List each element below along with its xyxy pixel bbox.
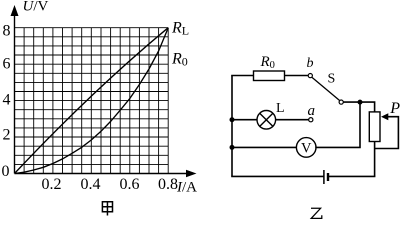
- svg-text:8: 8: [3, 23, 11, 40]
- wire rheostat bottom down: [374, 142, 376, 177]
- wire junction to rheostat top: [360, 102, 375, 112]
- svg-text:b: b: [307, 56, 314, 71]
- svg-text:V: V: [301, 141, 312, 157]
- svg-text:S: S: [328, 72, 336, 87]
- lamp L: [257, 111, 276, 130]
- y-axis arrow: [11, 5, 19, 16]
- svg-text:6: 6: [3, 56, 11, 73]
- terminal b: [308, 74, 312, 78]
- battery short plate: [327, 173, 329, 181]
- svg-text:0.2: 0.2: [42, 176, 62, 193]
- terminal a: [309, 118, 313, 122]
- caption jia (Chinese): [102, 202, 112, 216]
- wire top to R0: [231, 75, 253, 77]
- svg-text:0: 0: [2, 163, 10, 180]
- wire pivot to junction: [343, 101, 360, 103]
- x-axis arrow: [186, 170, 197, 178]
- wire left vertical: [231, 76, 233, 177]
- caption yi (Chinese): [311, 208, 322, 218]
- svg-text:U/V: U/V: [23, 0, 49, 15]
- wire R0 to b: [285, 75, 309, 77]
- switch pivot: [339, 100, 343, 104]
- bottom wire right of battery: [328, 175, 375, 177]
- svg-text:2: 2: [3, 127, 11, 144]
- svg-text:0.4: 0.4: [81, 176, 101, 193]
- svg-text:0.8: 0.8: [158, 176, 178, 193]
- svg-text:P: P: [389, 100, 400, 117]
- svg-text:a: a: [308, 103, 316, 119]
- wire lamp to a: [276, 119, 309, 121]
- x-axis: [15, 173, 190, 175]
- switch lever: [312, 77, 340, 100]
- wire to voltmeter: [232, 146, 296, 148]
- svg-text:L: L: [276, 101, 285, 116]
- curve RL straight line: [15, 28, 169, 174]
- svg-text:R0: R0: [171, 51, 188, 69]
- y-axis: [14, 13, 16, 174]
- grid: [15, 28, 169, 174]
- curve R0 lamp-like curve: [15, 28, 169, 174]
- battery long plate: [323, 170, 325, 184]
- svg-text:RL: RL: [171, 20, 189, 38]
- rheostat P box: [369, 112, 380, 142]
- wire voltmeter to junction vertical: [315, 102, 360, 148]
- svg-text:0.6: 0.6: [120, 176, 140, 193]
- junction node lamp branch: [230, 117, 235, 122]
- slider arrow: [381, 113, 388, 120]
- svg-text:I/A: I/A: [176, 180, 197, 196]
- svg-text:4: 4: [3, 92, 11, 109]
- bottom wire left of battery: [231, 175, 324, 177]
- svg-text:R0: R0: [260, 54, 275, 71]
- resistor R0: [254, 71, 285, 81]
- junction node A: [358, 100, 363, 105]
- wire to lamp: [232, 119, 257, 121]
- voltmeter V: [296, 138, 316, 158]
- slider tail wire: [375, 117, 399, 149]
- junction node V branch: [230, 145, 235, 150]
